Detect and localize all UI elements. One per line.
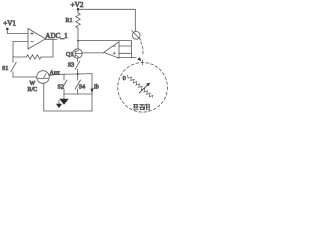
wire +V2 to trimmer (78, 9, 135, 31)
wire bottom loop to pot R/C terminal (44, 83, 92, 111)
power +V1 (3, 19, 16, 30)
detail resistor element (zigzag) (127, 75, 153, 97)
switch S4 (75, 74, 85, 94)
svg-text:Aux: Aux (50, 71, 60, 77)
callout dashed leader (141, 42, 143, 55)
wire S1 to potentiometer W terminal (13, 76, 37, 78)
switch S1 (2, 57, 16, 77)
wire rail node to U2 inputs (78, 41, 132, 58)
detail circle top tick (141, 60, 143, 64)
op-amp U1 (28, 29, 46, 50)
node junction at S3 bottom (77, 73, 79, 75)
power +V2 (71, 1, 84, 11)
svg-text:W: W (30, 81, 36, 87)
detail wiper arrow (139, 83, 150, 93)
detail label 最高值 (max value) (134, 104, 150, 110)
svg-text:R/C: R/C (28, 87, 38, 93)
current arrow Ib (91, 74, 99, 111)
node junction on rail (77, 40, 79, 42)
svg-text:R1: R1 (66, 18, 73, 24)
potentiometer body (circle) (37, 71, 50, 84)
svg-text:+V1: +V1 (3, 19, 16, 27)
svg-text:S1: S1 (2, 66, 8, 72)
svg-text:0: 0 (123, 75, 126, 82)
detail dashed circle (118, 63, 168, 113)
wire Aux: pot to switches (49, 74, 92, 76)
current arrow into bottom wire (56, 100, 62, 108)
svg-text:ADC_1: ADC_1 (45, 32, 68, 40)
op-amp U2 (left-pointing) (104, 42, 119, 59)
svg-text:S4: S4 (79, 85, 85, 91)
ground (59, 94, 68, 105)
wire +V2 to R1 (77, 9, 79, 13)
callout arrowhead (137, 57, 141, 61)
svg-text:Q1: Q1 (66, 52, 73, 58)
trimmer potentiometer (adjustable) (132, 31, 141, 41)
wire U2 bottom corner to callout (117, 57, 136, 59)
wire rail R1 to Q1 collector (77, 28, 79, 49)
wire U2 output to Q1 base (82, 52, 104, 54)
wire U1 output / node ADC_1 (45, 32, 68, 57)
svg-text:Ib: Ib (93, 85, 99, 91)
wire +V1 to U1 noninverting input (7, 29, 28, 34)
svg-text:+V2: +V2 (71, 1, 84, 9)
switch S3 (68, 58, 80, 74)
wire U1 inverting input (13, 42, 28, 58)
switch S2 (58, 75, 68, 94)
transistor Q1 (66, 49, 82, 58)
wire bottom rail (64, 93, 92, 95)
resistor feedback (13, 55, 53, 59)
svg-text:S3: S3 (68, 63, 74, 69)
resistor R1 (66, 13, 81, 28)
